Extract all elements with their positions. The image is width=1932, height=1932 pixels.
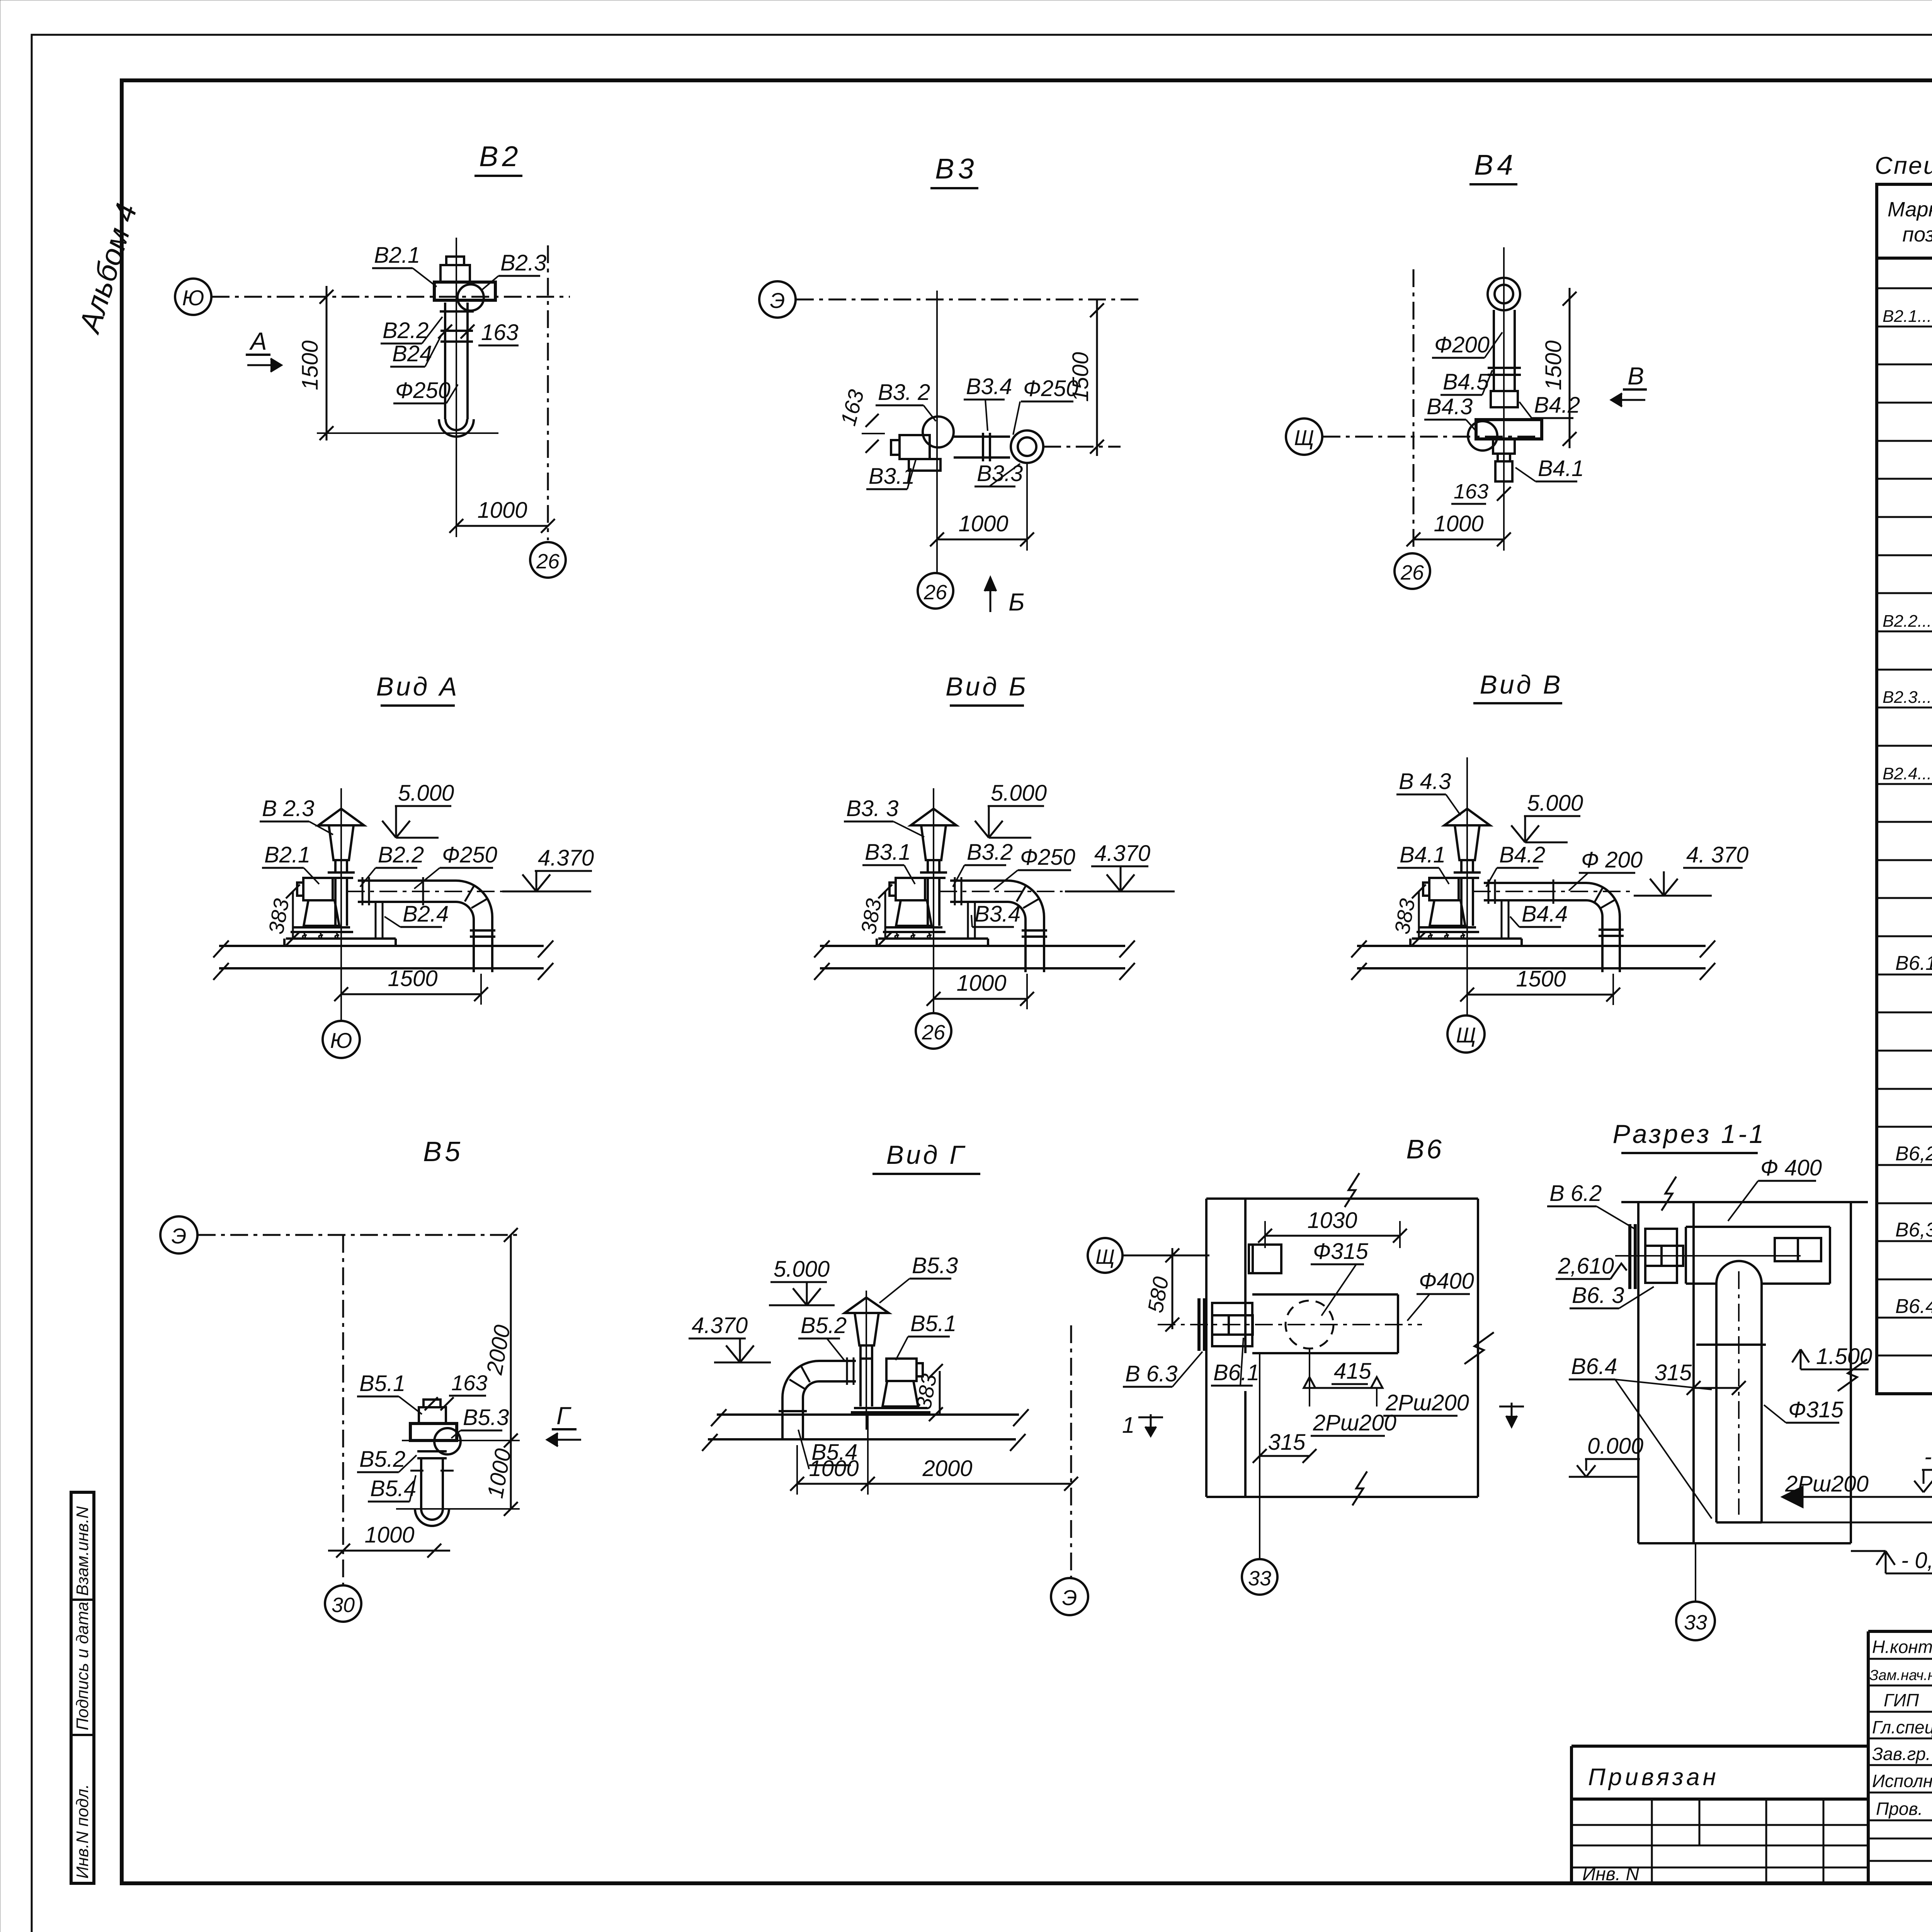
axis circle Э	[759, 281, 796, 318]
top break mark	[1662, 1177, 1676, 1211]
axis line 26 vertical	[1413, 269, 1415, 552]
axis circle Щ	[1088, 1238, 1122, 1273]
svg-text:Инв. N: Инв. N	[1582, 1864, 1639, 1884]
axis circle 33	[1676, 1602, 1715, 1640]
duct Ф250 horizontal	[954, 435, 1010, 438]
centerline vertical	[936, 291, 938, 573]
svg-text:315: 315	[1268, 1430, 1306, 1455]
left margin strip boxes	[71, 1492, 94, 1883]
svg-text:4.370: 4.370	[692, 1313, 748, 1338]
svg-text:В2.2: В2.2	[378, 842, 424, 867]
extension line at fan level	[402, 1440, 520, 1441]
platform edges	[1409, 939, 1412, 946]
dim 1030	[1265, 1235, 1400, 1237]
axis line Ю horizontal	[212, 296, 570, 298]
axis line Щ horizontal	[1323, 436, 1542, 438]
svg-text:Исполн.: Исполн.	[1872, 1771, 1932, 1791]
svg-text:Зам.нач.нтк: Зам.нач.нтк	[1869, 1667, 1932, 1684]
zont body	[855, 1313, 879, 1345]
extension line at bottom level	[396, 1508, 520, 1510]
svg-text:В5.2: В5.2	[359, 1447, 405, 1472]
svg-text:163: 163	[481, 320, 519, 345]
extension dash-dot through fan	[1043, 446, 1121, 448]
section arrow Б	[990, 578, 992, 612]
svg-text:5.000: 5.000	[991, 781, 1047, 806]
roof line lower	[1357, 967, 1706, 969]
signature table row lines	[1868, 1659, 1932, 1861]
centerline vertical	[933, 788, 934, 1013]
svg-text:В3. 3: В3. 3	[846, 796, 898, 821]
centerline vertical	[1466, 757, 1468, 1016]
svg-text:383: 383	[1390, 897, 1420, 936]
svg-text:В4.5: В4.5	[1443, 369, 1489, 395]
dim 1000	[937, 539, 1027, 541]
structure right vertical	[1850, 1202, 1852, 1543]
duct U-elbow	[415, 1509, 449, 1526]
svg-text:4.370: 4.370	[538, 845, 594, 871]
centerline horizontal	[1158, 1324, 1422, 1325]
svg-text:- 0,750: - 0,750	[1901, 1548, 1932, 1573]
dim 580 vertical	[1172, 1248, 1173, 1329]
svg-text:1000: 1000	[809, 1456, 859, 1481]
axis circle 26	[916, 1013, 951, 1049]
duct arch	[1716, 1261, 1762, 1284]
dim 383	[939, 1371, 941, 1414]
structure bottom line	[1638, 1542, 1851, 1544]
centerline zont vertical	[866, 1291, 867, 1430]
svg-text:26: 26	[1400, 561, 1424, 584]
svg-text:1: 1	[1122, 1413, 1134, 1438]
svg-text:163: 163	[836, 387, 869, 429]
svg-text:Э: Э	[770, 288, 785, 313]
table header bottom line	[1877, 257, 1932, 260]
top boundary line	[1621, 1201, 1868, 1203]
roof break marks	[1351, 940, 1715, 980]
svg-text:Подпись и дата: Подпись и дата	[73, 1602, 92, 1730]
svg-text:В5.1: В5.1	[910, 1311, 956, 1336]
flexible insert B5.2 flange lines	[417, 1450, 447, 1452]
fan B6.1 inner	[1229, 1315, 1253, 1335]
fan B3.1 motor hat	[891, 440, 900, 455]
fan B5.1 motor	[419, 1407, 446, 1423]
fan B2.1 motor	[440, 265, 470, 282]
svg-text:Вид В: Вид В	[1480, 670, 1563, 699]
svg-text:В2.1: В2.1	[374, 243, 420, 268]
svg-text:Б: Б	[1009, 588, 1025, 616]
axis circle Щ	[1447, 1015, 1485, 1053]
fan B4.1 wide body	[1476, 420, 1542, 439]
fan B5.1 motor hat	[423, 1400, 440, 1407]
svg-text:5.000: 5.000	[398, 781, 454, 806]
roof break marks	[702, 1409, 1029, 1451]
svg-text:1000: 1000	[956, 971, 1006, 996]
platform edges	[876, 939, 878, 946]
roof break marks	[213, 940, 553, 980]
svg-text:26: 26	[923, 581, 947, 604]
svg-text:1500: 1500	[1541, 340, 1566, 390]
right boundary line	[1477, 1199, 1479, 1497]
vertical duct from elbow	[1601, 925, 1604, 972]
svg-text:В6: В6	[1406, 1134, 1444, 1164]
svg-text:В 6.2: В 6.2	[1549, 1181, 1602, 1206]
svg-text:Альбом 4: Альбом 4	[72, 199, 144, 337]
dim 1000	[1413, 539, 1504, 541]
flexible insert B2.2 flange lines	[440, 310, 474, 313]
svg-text:4. 370: 4. 370	[1686, 842, 1748, 867]
fan B3.1 base box	[909, 459, 940, 471]
dim 1000	[934, 998, 1027, 1000]
duct Ф200 vertical	[1493, 310, 1495, 391]
axis line 30 vertical	[342, 1235, 344, 1584]
svg-text:В2.3: В2.3	[500, 250, 546, 276]
svg-text:В3. 2: В3. 2	[878, 380, 930, 405]
svg-text:1030: 1030	[1307, 1208, 1357, 1233]
bottom boundary line	[1206, 1496, 1478, 1498]
Привязан table	[1571, 1746, 1868, 1883]
svg-text:383: 383	[856, 897, 886, 936]
roof break marks	[814, 940, 1135, 980]
svg-text:Вид А: Вид А	[376, 672, 459, 701]
svg-text:Ф250: Ф250	[1020, 845, 1075, 870]
svg-text:В5.4: В5.4	[370, 1476, 416, 1501]
svg-text:Ф250: Ф250	[442, 842, 497, 867]
svg-text:В6.1: В6.1	[1213, 1360, 1259, 1385]
axis line Э horizontal	[796, 299, 1140, 301]
duct right edge	[1397, 1294, 1399, 1353]
svg-text:В4.3: В4.3	[1427, 394, 1473, 419]
fan B2.1 flange body	[434, 282, 495, 300]
svg-text:В 4.3: В 4.3	[1399, 769, 1451, 794]
dim 1500 vertical at right	[1096, 299, 1098, 456]
duct U-elbow	[439, 419, 474, 437]
structure inner vertical	[1692, 1202, 1695, 1543]
svg-text:Ф200: Ф200	[1434, 332, 1490, 357]
svg-text:33: 33	[1684, 1611, 1707, 1634]
fan B3.1 motor	[900, 435, 930, 459]
svg-text:В6,3: В6,3	[1895, 1219, 1932, 1241]
fan B6.1 body	[1212, 1303, 1252, 1346]
svg-text:163: 163	[451, 1371, 487, 1395]
fan body right	[886, 1359, 917, 1381]
duct horizontal box	[1686, 1226, 1830, 1228]
right break mark	[1464, 1332, 1494, 1364]
duct flanges	[1488, 879, 1490, 904]
svg-text:В2: В2	[479, 140, 522, 172]
svg-text:В2.2...В5.2: В2.2...В5.2	[1883, 612, 1932, 631]
svg-text:2Рш200: 2Рш200	[1313, 1410, 1396, 1435]
svg-text:Г: Г	[556, 1402, 571, 1430]
svg-text:В 2.3: В 2.3	[262, 796, 314, 821]
svg-text:В4.2: В4.2	[1534, 393, 1580, 418]
svg-text:1000: 1000	[1434, 511, 1483, 536]
svg-text:2000: 2000	[922, 1456, 972, 1481]
title B3 underline	[930, 187, 978, 189]
zont B4.x circle top	[1488, 278, 1520, 310]
svg-text:В2.1: В2.1	[264, 842, 310, 867]
axis circle Ю	[323, 1021, 360, 1058]
fan unit	[286, 809, 364, 939]
fan flange body	[410, 1423, 457, 1440]
duct vertical	[420, 1458, 422, 1509]
svg-text:В: В	[1628, 362, 1644, 390]
svg-text:383: 383	[264, 897, 294, 936]
structure left vertical	[1637, 1202, 1639, 1543]
axis circle Э	[160, 1216, 197, 1253]
vertical duct from elbow	[1024, 925, 1027, 972]
flexible insert B3.2 circle	[923, 417, 954, 447]
roof line lower	[820, 967, 1125, 969]
centerline vertical	[340, 788, 342, 1020]
svg-text:26: 26	[922, 1021, 946, 1044]
svg-text:В24: В24	[392, 341, 432, 366]
svg-text:Инв.N подл.: Инв.N подл.	[73, 1784, 92, 1879]
svg-text:1500: 1500	[1516, 966, 1566, 992]
elbow	[1008, 881, 1044, 925]
svg-text:поз.: поз.	[1902, 223, 1932, 246]
fan unit	[1412, 809, 1490, 939]
svg-text:Ю: Ю	[330, 1028, 352, 1053]
motor boxes below	[1493, 439, 1515, 454]
dim 383	[1418, 891, 1420, 939]
duct Ф200 horizontal	[1484, 882, 1586, 884]
svg-text:Зав.гр.: Зав.гр.	[1872, 1744, 1931, 1764]
duct bottom line	[1716, 1521, 1762, 1524]
svg-text:В5.2: В5.2	[801, 1313, 847, 1338]
axis line Э horizontal	[198, 1234, 520, 1236]
roof line upper	[820, 945, 1125, 947]
svg-text:В3.4: В3.4	[966, 374, 1012, 399]
svg-text:В6.4: В6.4	[1571, 1354, 1617, 1379]
support B4.4	[1501, 900, 1503, 939]
svg-text:- 0,300: - 0,300	[1924, 1444, 1932, 1469]
fan B4.3 circle	[1468, 421, 1497, 451]
svg-text:Ф315: Ф315	[1313, 1239, 1369, 1264]
svg-text:5.000: 5.000	[1527, 791, 1583, 816]
zont B2.3 circle	[457, 284, 484, 311]
svg-text:Э: Э	[1062, 1585, 1077, 1610]
svg-text:1500: 1500	[298, 340, 323, 390]
dim 1000 bottom	[328, 1550, 450, 1552]
roof line lower	[708, 1438, 1016, 1440]
svg-text:1000: 1000	[364, 1522, 414, 1548]
base rails	[854, 1407, 927, 1409]
fan unit	[878, 809, 956, 939]
axis line Щ horizontal	[1123, 1255, 1209, 1257]
svg-text:Разрез 1-1: Разрез 1-1	[1613, 1119, 1766, 1149]
extension line bottom level	[317, 432, 498, 434]
duct top line	[1252, 1293, 1398, 1296]
axis circle 26	[530, 542, 566, 578]
svg-text:Гл.спец.: Гл.спец.	[1872, 1717, 1932, 1737]
svg-text:В5.3: В5.3	[463, 1405, 509, 1430]
table outer box	[1877, 184, 1932, 1394]
svg-text:Вид Г: Вид Г	[886, 1140, 966, 1170]
svg-text:Взам.инв.N: Взам.инв.N	[73, 1506, 92, 1596]
svg-text:1000: 1000	[477, 498, 527, 523]
svg-text:В4.1: В4.1	[1400, 842, 1446, 867]
svg-text:33: 33	[1248, 1567, 1271, 1590]
outlet column under zont	[859, 1359, 862, 1406]
svg-text:В3.3: В3.3	[977, 461, 1023, 486]
support B2.4	[375, 902, 377, 939]
dim 383	[292, 891, 294, 939]
svg-text:Ф315: Ф315	[1788, 1397, 1844, 1422]
fan B6.1 plates	[1197, 1298, 1201, 1351]
dim 383	[884, 891, 886, 939]
axis circle Щ	[1286, 418, 1322, 455]
roof line upper	[1357, 945, 1706, 947]
svg-text:Привязан: Привязан	[1588, 1764, 1719, 1791]
axis circle 26	[1395, 553, 1430, 589]
duct Ф250 vertical	[444, 303, 446, 419]
elbow	[1586, 883, 1620, 925]
dim 1500 vertical	[326, 286, 328, 440]
fan circle dashed	[1286, 1301, 1333, 1349]
svg-text:Пров.: Пров.	[1876, 1799, 1923, 1819]
svg-text:Щ: Щ	[1456, 1023, 1476, 1047]
axis line Э vertical	[1070, 1325, 1072, 1577]
svg-text:1500: 1500	[388, 966, 437, 991]
svg-text:В3.2: В3.2	[967, 840, 1013, 865]
svg-text:2Рш200: 2Рш200	[1385, 1390, 1469, 1415]
duct horizontal	[819, 1360, 856, 1362]
svg-text:415: 415	[1334, 1359, 1372, 1384]
svg-text:2,610: 2,610	[1558, 1253, 1614, 1279]
right break mark	[1838, 1359, 1867, 1391]
wall line left	[1205, 1199, 1207, 1497]
grille squares	[1775, 1238, 1798, 1261]
svg-text:Вид Б: Вид Б	[946, 672, 1028, 701]
svg-text:В4.1: В4.1	[1538, 456, 1584, 481]
dim 1500	[1467, 994, 1613, 996]
axis line 33 vertical	[1259, 1353, 1260, 1559]
support B5.4 flange	[410, 1470, 423, 1472]
vertical duct down	[781, 1405, 784, 1439]
table row lines	[1877, 288, 1932, 1355]
dim 1000	[797, 1483, 868, 1485]
svg-text:В2.4...В5.4: В2.4...В5.4	[1883, 764, 1932, 783]
svg-text:В3.1: В3.1	[865, 840, 911, 865]
svg-text:Щ: Щ	[1294, 425, 1314, 450]
svg-text:Ю: Ю	[182, 286, 204, 310]
title B2 underline	[474, 175, 522, 177]
dim 1500 rotated	[1569, 288, 1571, 448]
svg-text:1500: 1500	[1068, 352, 1093, 402]
svg-text:315: 315	[1655, 1360, 1692, 1385]
axis line 33 vertical	[1695, 1543, 1696, 1602]
dim 1000	[456, 525, 548, 527]
fan unit left	[1628, 1224, 1631, 1289]
svg-text:580: 580	[1143, 1275, 1173, 1315]
svg-text:В4.2: В4.2	[1499, 842, 1545, 867]
zont cap	[845, 1298, 889, 1313]
svg-text:В5.1: В5.1	[359, 1371, 405, 1396]
svg-text:5.000: 5.000	[774, 1257, 830, 1282]
zont B3.3 circle	[1011, 430, 1043, 463]
svg-text:26: 26	[536, 550, 560, 573]
duct Ф250 horizontal	[358, 879, 456, 882]
grille square	[1249, 1245, 1281, 1273]
elbow	[456, 881, 492, 925]
duct vertical	[1715, 1284, 1718, 1522]
svg-text:В4.4: В4.4	[1522, 901, 1568, 927]
roof line lower	[219, 967, 544, 969]
svg-text:Щ: Щ	[1095, 1245, 1115, 1269]
axis circle Ю	[175, 279, 211, 315]
svg-text:Ф250: Ф250	[395, 378, 451, 403]
support B3.4	[967, 902, 969, 939]
svg-text:4.370: 4.370	[1094, 841, 1150, 866]
svg-text:В5.3: В5.3	[912, 1253, 958, 1278]
table body texts	[1883, 263, 1932, 1318]
elbow left	[782, 1361, 819, 1405]
dim 2000 vertical	[510, 1235, 512, 1509]
svg-text:В2.4: В2.4	[403, 901, 449, 927]
svg-text:Ф 400: Ф 400	[1760, 1155, 1822, 1180]
roof line upper	[717, 1413, 1019, 1416]
svg-text:Ф400: Ф400	[1419, 1269, 1474, 1294]
centerline of duct vertical	[456, 238, 457, 479]
svg-text:30: 30	[332, 1594, 355, 1617]
duct flanges	[362, 877, 364, 905]
top break mark	[1345, 1173, 1359, 1207]
support B3.4 flange	[982, 433, 984, 461]
svg-text:В6.4: В6.4	[1895, 1295, 1932, 1318]
centerline vertical equipment	[1503, 247, 1505, 487]
axis circle Э	[1051, 1578, 1088, 1615]
axis circle 26	[918, 573, 953, 609]
duct centerline	[1738, 1271, 1740, 1515]
svg-text:В6.1: В6.1	[1895, 952, 1932, 975]
svg-text:1000: 1000	[958, 511, 1008, 536]
dim 1500	[341, 993, 481, 995]
title B4 underline	[1469, 183, 1517, 185]
flange B4.5	[1488, 367, 1521, 369]
dim extension verticals	[796, 1445, 798, 1495]
svg-text:ГИП: ГИП	[1884, 1690, 1919, 1710]
wall line right	[1244, 1199, 1247, 1353]
svg-text:В5: В5	[423, 1136, 463, 1167]
svg-text:Ф 200: Ф 200	[1581, 847, 1643, 872]
svg-text:В3: В3	[935, 153, 978, 185]
axis circle 33	[1242, 1559, 1277, 1595]
svg-text:В3.4: В3.4	[975, 901, 1020, 927]
svg-text:В 6.3: В 6.3	[1125, 1361, 1177, 1386]
dim 2000	[868, 1483, 1071, 1485]
svg-text:Спецификация отопительно-венти: Спецификация отопительно-вентиляционного…	[1875, 152, 1932, 179]
svg-text:В2.1...В5.1: В2.1...В5.1	[1883, 307, 1932, 326]
svg-text:В6. 3: В6. 3	[1572, 1283, 1624, 1308]
insert B4.2 box	[1491, 391, 1518, 407]
platform edges	[283, 939, 286, 946]
svg-text:Марка,: Марка,	[1888, 198, 1932, 221]
svg-text:Н.контр.: Н.контр.	[1872, 1637, 1932, 1657]
svg-text:В6,2: В6,2	[1895, 1143, 1932, 1165]
svg-text:0.000: 0.000	[1587, 1434, 1643, 1459]
zont B5.3 circle	[434, 1428, 461, 1454]
svg-text:163: 163	[1454, 480, 1488, 503]
svg-text:Э: Э	[172, 1224, 187, 1248]
svg-text:В2.3...В5.3: В2.3...В5.3	[1883, 688, 1932, 707]
long line to -0.600 level	[1762, 1522, 1932, 1524]
fan B2.1 motor hat	[446, 257, 464, 265]
axis circle 30	[325, 1585, 361, 1622]
svg-text:А: А	[249, 327, 267, 355]
duct flanges	[954, 877, 956, 905]
svg-text:1.500: 1.500	[1816, 1344, 1872, 1369]
svg-text:В2.2: В2.2	[383, 318, 429, 343]
zont neck	[861, 1345, 872, 1359]
